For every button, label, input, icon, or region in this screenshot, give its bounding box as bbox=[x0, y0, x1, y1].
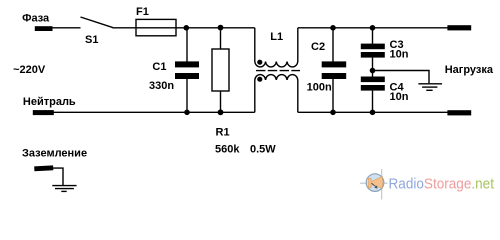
svg-text:10n: 10n bbox=[390, 49, 409, 61]
svg-text:10n: 10n bbox=[390, 91, 409, 103]
terminal load top bbox=[447, 25, 471, 30]
inductor L1 core dashed line bbox=[256, 70, 300, 72]
capacitor C2 plate bottom bbox=[322, 73, 347, 79]
ground symbol left bar2 bbox=[55, 188, 74, 190]
svg-text:L1: L1 bbox=[270, 31, 283, 43]
capacitor C3 branch wire upper bbox=[372, 28, 374, 44]
inductor L1 top winding exit vertical bbox=[297, 28, 299, 62]
node junction top C1 bbox=[184, 25, 190, 31]
ground symbol right bar1 bbox=[418, 83, 442, 85]
svg-text:~220V: ~220V bbox=[13, 64, 46, 76]
svg-text:Нагрузка: Нагрузка bbox=[445, 64, 494, 76]
capacitor C2 branch wire upper bbox=[332, 28, 334, 62]
inductor L1 phase dot bottom bbox=[257, 77, 262, 82]
wire bottom rail neutral to L1 bbox=[52, 111, 255, 113]
inductor L1 bottom winding entry vertical bbox=[254, 80, 256, 112]
node junction top C3 bbox=[370, 25, 376, 31]
resistor R1 branch wire upper bbox=[220, 28, 222, 49]
capacitor C4 plate bottom bbox=[361, 85, 385, 91]
ground symbol left bar3 bbox=[61, 190, 66, 192]
wire bottom rail L1 to load terminal bbox=[298, 111, 448, 113]
node junction top R1 bbox=[218, 25, 224, 31]
inductor L1 top winding arcs bbox=[255, 62, 298, 67]
inductor L1 phase dot top bbox=[257, 60, 262, 65]
wire top rail fuse to L1 bbox=[186, 27, 255, 29]
capacitor C4 branch wire lower bbox=[372, 91, 374, 113]
capacitor C2 branch wire lower bbox=[332, 79, 334, 112]
resistor R1 body bbox=[212, 49, 229, 91]
node junction middle C3 C4 ground bbox=[370, 68, 376, 74]
svg-text:Фаза: Фаза bbox=[22, 12, 50, 24]
svg-text:560k: 560k bbox=[215, 144, 240, 156]
svg-text:C1: C1 bbox=[152, 61, 166, 73]
wire switch to fuse junction bbox=[113, 27, 187, 29]
inductor L1 bottom winding exit vertical bbox=[297, 80, 299, 112]
svg-text:100n: 100n bbox=[307, 82, 332, 94]
node junction bottom C2 bbox=[330, 110, 336, 116]
resistor R1 branch wire lower bbox=[220, 91, 222, 112]
svg-text:Нейтраль: Нейтраль bbox=[23, 96, 76, 108]
node junction bottom C1 bbox=[184, 110, 190, 116]
node junction bottom C4 bbox=[370, 110, 376, 116]
watermark crosshair horizontal bbox=[360, 182, 388, 184]
svg-text:S1: S1 bbox=[85, 34, 98, 46]
ground symbol left bar1 bbox=[52, 185, 76, 187]
capacitor C1 branch wire lower bbox=[186, 79, 188, 112]
watermark crosshair vertical bbox=[381, 169, 383, 200]
capacitor C4 plate top bbox=[361, 77, 385, 83]
svg-text:330n: 330n bbox=[149, 80, 174, 92]
wire C3 to middle junction bbox=[372, 58, 374, 77]
inductor L1 bottom winding arcs bbox=[255, 75, 298, 80]
wire phase terminal to switch bbox=[51, 27, 81, 29]
svg-text:0.5W: 0.5W bbox=[250, 144, 276, 156]
svg-text:Заземление: Заземление bbox=[22, 148, 87, 160]
ground symbol right bar2 bbox=[422, 86, 437, 88]
svg-text:R1: R1 bbox=[216, 127, 230, 139]
terminal Фаза (phase input) bbox=[35, 26, 53, 31]
watermark transistor orange shape bbox=[369, 177, 383, 189]
ground symbol right bar3 bbox=[426, 89, 432, 91]
capacitor C1 plate top bbox=[175, 61, 199, 67]
capacitor C3 plate bottom bbox=[361, 52, 385, 58]
terminal load bottom bbox=[447, 110, 471, 115]
terminal Нейтраль (neutral input) bbox=[33, 110, 54, 115]
inductor L1 top winding entry vertical bbox=[254, 28, 256, 62]
watermark transistor dark marks bbox=[371, 183, 377, 188]
capacitor C3 plate top bbox=[361, 44, 385, 50]
node junction bottom R1 bbox=[218, 109, 224, 115]
svg-text:RadioStorage.net: RadioStorage.net bbox=[389, 176, 495, 193]
capacitor C1 plate bottom bbox=[175, 73, 199, 79]
wire top rail L1 to load terminal bbox=[298, 27, 448, 29]
wire earth terminal to ground bbox=[53, 168, 64, 185]
capacitor C1 branch wire upper bbox=[186, 28, 188, 62]
fuse F1 body bbox=[136, 19, 176, 35]
watermark globe circle bbox=[366, 174, 384, 192]
capacitor C2 plate top bbox=[322, 61, 347, 67]
svg-text:C2: C2 bbox=[311, 41, 325, 53]
svg-text:F1: F1 bbox=[136, 6, 149, 18]
switch S1 open blade bbox=[81, 17, 113, 28]
terminal Заземление (earth) bbox=[34, 165, 53, 171]
node junction top C2 bbox=[330, 25, 336, 31]
wire middle junction to chassis ground bbox=[373, 71, 430, 84]
